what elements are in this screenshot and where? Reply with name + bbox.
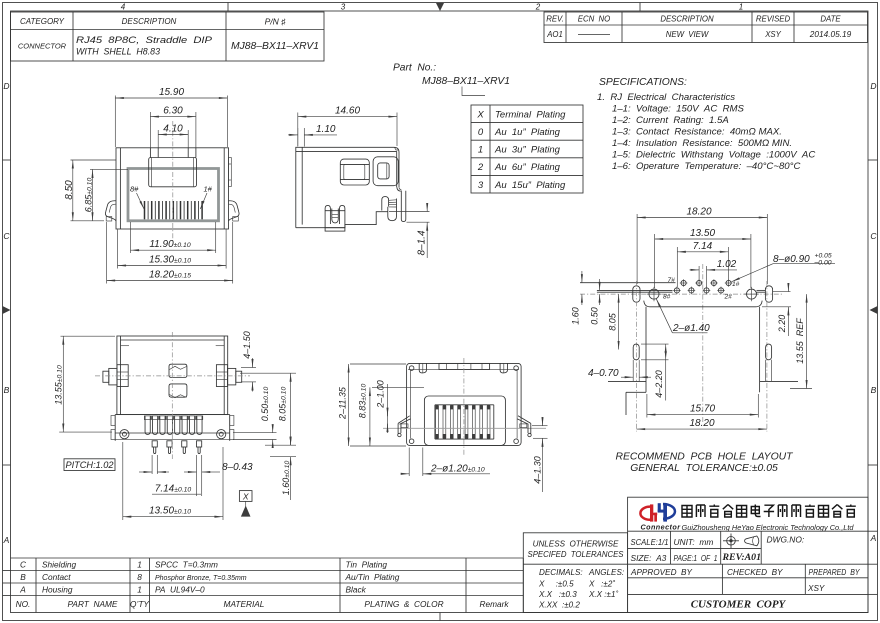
title block grid xyxy=(523,497,868,612)
svg-text:Phosphor Bronze, T=0.35mm: Phosphor Bronze, T=0.35mm xyxy=(155,575,247,582)
parts table grid xyxy=(11,558,524,613)
svg-text:DECIMALS:: DECIMALS: xyxy=(539,568,583,577)
top view: centerlines xyxy=(95,375,250,377)
centering arrow top xyxy=(436,3,444,11)
svg-text:MJ88–BX11–XRV1: MJ88–BX11–XRV1 xyxy=(231,40,319,52)
tolerance box text xyxy=(528,540,625,610)
svg-text:PLATING & COLOR: PLATING & COLOR xyxy=(364,599,443,609)
svg-text:1–6: Operature Temperature:: 1–6: Operature Temperature: –40°C~80°C xyxy=(612,161,800,172)
svg-text:8: 8 xyxy=(137,572,142,582)
svg-text:8.50: 8.50 xyxy=(64,180,75,200)
dim 8.50 xyxy=(71,160,117,221)
svg-text:CONNECTOR: CONNECTOR xyxy=(18,42,67,51)
svg-text:18.20±0.15: 18.20±0.15 xyxy=(149,269,191,280)
svg-text:C: C xyxy=(870,231,877,241)
pcb layout: big holes 2-d1.40 xyxy=(647,287,759,301)
svg-text:13.55 REF: 13.55 REF xyxy=(795,318,805,364)
svg-text:Au 6u” Plating: Au 6u” Plating xyxy=(494,162,561,173)
svg-text:Tin Plating: Tin Plating xyxy=(346,560,388,570)
svg-text:18.20: 18.20 xyxy=(686,207,711,218)
svg-text:Au 15u” Plating: Au 15u” Plating xyxy=(494,180,566,191)
svg-text:B: B xyxy=(871,385,877,395)
front view: right seam tab xyxy=(229,158,232,187)
dim 8-d0.90 xyxy=(773,263,835,265)
svg-text:1. RJ Electrical Characteri: 1. RJ Electrical Characteristics xyxy=(597,92,735,103)
dim 18.20 xyxy=(107,222,233,284)
svg-text:1#: 1# xyxy=(204,185,213,194)
svg-text:8–1.4: 8–1.4 xyxy=(417,230,428,255)
dim 2-d1.40 xyxy=(672,332,707,334)
top view: post circles xyxy=(120,430,129,439)
rear view: pcb line xyxy=(383,427,546,429)
svg-text:SPECIFED TOLERANCES: SPECIFED TOLERANCES xyxy=(528,550,625,559)
svg-text:8.05: 8.05 xyxy=(608,312,618,331)
top view: body xyxy=(117,336,228,415)
svg-text:–0.00: –0.00 xyxy=(814,260,832,267)
svg-text:4: 4 xyxy=(121,3,126,12)
svg-text:PREPARED BY: PREPARED BY xyxy=(809,568,860,577)
pcb layout: outline xyxy=(608,301,798,415)
top view: shield clip upper xyxy=(169,364,187,377)
svg-text:0: 0 xyxy=(478,127,484,138)
dim 1.02 pcb xyxy=(690,266,738,287)
zone ticks top xyxy=(228,3,640,12)
dim 4-2.20 xyxy=(641,344,669,400)
dim 4.10 xyxy=(158,130,188,148)
zone ticks left xyxy=(3,160,11,465)
svg-text:8–ø0.90: 8–ø0.90 xyxy=(773,254,810,265)
svg-text:XSY: XSY xyxy=(764,30,781,39)
svg-text:C: C xyxy=(20,560,27,570)
svg-text:GuiZhousheng HeYao Electronic: GuiZhousheng HeYao Electronic Technology… xyxy=(682,523,855,532)
svg-text:SCALE:1/1: SCALE:1/1 xyxy=(631,537,669,547)
svg-text:8–0.43: 8–0.43 xyxy=(222,462,253,473)
svg-text:7.14: 7.14 xyxy=(693,241,713,252)
svg-text:NO.: NO. xyxy=(16,599,31,609)
svg-text:8.83±0.10: 8.83±0.10 xyxy=(358,384,368,419)
top view: 8 contacts xyxy=(145,416,202,434)
pcb layout: holes centerline xyxy=(580,293,783,295)
cone symbol xyxy=(745,536,759,546)
top view: contact strip xyxy=(115,415,230,441)
svg-text:GENERAL TOLERANCE:±0.05: GENERAL TOLERANCE:±0.05 xyxy=(630,463,778,474)
svg-text:1: 1 xyxy=(739,3,743,12)
svg-text:3: 3 xyxy=(478,180,484,191)
side view: rear hook and lead xyxy=(397,187,401,191)
svg-text:B: B xyxy=(4,385,10,395)
svg-text:2–ø1.20±0.10: 2–ø1.20±0.10 xyxy=(430,464,485,475)
side view: body outline xyxy=(296,147,399,227)
svg-text:1–2: Current Rating: 1.5A: 1–2: Current Rating: 1.5A xyxy=(612,115,729,126)
dim 8.05 top view xyxy=(240,373,296,445)
front view: shell outline xyxy=(116,148,229,229)
rear view: inner window xyxy=(424,396,505,445)
svg-text:14.60: 14.60 xyxy=(335,106,360,117)
svg-text:PITCH:1.02: PITCH:1.02 xyxy=(66,460,114,470)
svg-text:X: X xyxy=(242,492,249,502)
front view: right ear xyxy=(229,201,240,221)
dim 2-1.00 xyxy=(387,384,389,433)
svg-text:CUSTOMER COPY: CUSTOMER COPY xyxy=(691,599,787,611)
top view: shield clip lower xyxy=(169,384,187,397)
svg-text:1–4: Insulation Resistance:: 1–4: Insulation Resistance: 500MΩ MIN. xyxy=(612,138,792,149)
svg-text:MATERIAL: MATERIAL xyxy=(224,599,265,609)
svg-text:DATE: DATE xyxy=(820,15,841,24)
svg-text:P/N ♯: P/N ♯ xyxy=(265,17,287,27)
front view: key slot walls xyxy=(150,148,196,158)
centering arrow bottom xyxy=(439,613,441,621)
svg-text:Au 3u” Plating: Au 3u” Plating xyxy=(494,145,561,156)
front view: centerline xyxy=(172,121,174,243)
dim 8-1.4 xyxy=(389,204,430,259)
top view: left latch ear xyxy=(103,365,128,387)
zone numbers top xyxy=(121,3,743,12)
svg-text:Remark: Remark xyxy=(479,599,509,609)
svg-text:B: B xyxy=(20,572,26,582)
pcb layout: upper slots xyxy=(633,286,640,302)
svg-text:0.50±0.10: 0.50±0.10 xyxy=(260,387,270,422)
svg-text:CHECKED BY: CHECKED BY xyxy=(727,568,783,577)
rear view: right ear xyxy=(517,416,531,437)
svg-text:7.14±0.10: 7.14±0.10 xyxy=(155,484,192,495)
dim 13.50 top view xyxy=(123,442,223,520)
dim 4-0.70 xyxy=(621,376,651,378)
svg-text:Contact: Contact xyxy=(42,572,71,582)
svg-text:4.10: 4.10 xyxy=(163,124,183,135)
company logo xyxy=(640,503,681,531)
rear view: 8 contacts xyxy=(436,406,490,438)
centering arrow right xyxy=(870,306,878,314)
rear view: top tabs xyxy=(408,363,519,438)
svg-text:1–3: Contact Resistance: 40: 1–3: Contact Resistance: 40mΩ MAX. xyxy=(612,127,782,138)
side view: foot pad xyxy=(325,228,345,231)
svg-text:Housing: Housing xyxy=(42,585,73,595)
svg-text:1: 1 xyxy=(137,585,142,595)
dim 13.50 pcb xyxy=(655,234,751,288)
dim 6.30 xyxy=(150,112,196,148)
front view: port opening thick xyxy=(128,169,219,221)
svg-text:DESCRIPTION: DESCRIPTION xyxy=(660,15,714,24)
rear view: corner holes xyxy=(409,366,518,444)
svg-text:13.50: 13.50 xyxy=(690,228,715,239)
dim 13.55 REF xyxy=(790,294,812,388)
svg-text:2#: 2# xyxy=(724,294,733,301)
svg-text:1–1: Voltage: 150V AC RMS: 1–1: Voltage: 150V AC RMS xyxy=(612,104,744,115)
side view: front foot clip xyxy=(325,205,345,227)
svg-text:D: D xyxy=(3,81,9,91)
margin tick lines right xyxy=(868,531,878,594)
dim 1.60 pcb xyxy=(581,271,583,305)
side view: contact spring clip xyxy=(382,197,389,211)
projection symbol xyxy=(723,534,739,549)
header table top-left xyxy=(11,12,325,61)
revision table top-right xyxy=(544,12,868,43)
side view: latch window xyxy=(340,159,369,185)
zone letters left xyxy=(3,81,11,545)
svg-text:13.50±0.10: 13.50±0.10 xyxy=(149,506,191,517)
svg-text:4–0.70: 4–0.70 xyxy=(588,368,619,379)
dim 15.90 xyxy=(115,96,227,148)
svg-text:8.05±0.10: 8.05±0.10 xyxy=(278,387,288,422)
svg-text:2–1.00: 2–1.00 xyxy=(376,380,386,409)
svg-text:Q’TY: Q’TY xyxy=(130,599,150,609)
svg-text:1.60±0.10: 1.60±0.10 xyxy=(281,461,291,496)
svg-text:ANGLES:: ANGLES: xyxy=(588,568,624,577)
svg-text:1.02: 1.02 xyxy=(717,259,737,270)
svg-text:1: 1 xyxy=(137,560,142,570)
svg-text:Au 1u” Plating: Au 1u” Plating xyxy=(494,127,561,138)
terminal plating table xyxy=(471,105,583,193)
dim 2-d1.20 xyxy=(401,448,490,477)
pcb layout: pin labels xyxy=(663,277,740,301)
svg-text:A: A xyxy=(870,533,877,543)
svg-text:11.90±0.10: 11.90±0.10 xyxy=(149,239,190,250)
svg-text:1.10: 1.10 xyxy=(316,124,336,135)
svg-text:2–11.35: 2–11.35 xyxy=(338,386,348,420)
centering arrow left xyxy=(3,306,11,314)
svg-text:APPROVED BY: APPROVED BY xyxy=(630,568,693,577)
svg-text:15.90: 15.90 xyxy=(159,87,184,98)
company name cn (glyph strokes) xyxy=(682,505,856,518)
svg-text:SPECIFICATIONS:: SPECIFICATIONS: xyxy=(599,77,687,88)
pcb layout: lower slots xyxy=(633,344,639,360)
zone letters right xyxy=(870,81,878,543)
dim 15.70 xyxy=(647,394,758,418)
dim 2-11.35 xyxy=(349,364,406,446)
dim 6.85 xyxy=(90,169,128,220)
svg-text:RECOMMEND PCB HOLE LAYOUT: RECOMMEND PCB HOLE LAYOUT xyxy=(615,451,793,462)
zone ticks right xyxy=(868,160,878,465)
svg-text:CATEGORY: CATEGORY xyxy=(20,17,65,26)
svg-text:D: D xyxy=(870,81,876,91)
dim 2.20 pcb xyxy=(762,285,791,337)
svg-text:4–2.20: 4–2.20 xyxy=(654,370,664,398)
svg-text:X.X :±1˚: X.X :±1˚ xyxy=(588,590,618,599)
dim 1.10 xyxy=(288,128,337,147)
svg-text:7#: 7# xyxy=(668,277,676,284)
svg-text:DESCRIPTION: DESCRIPTION xyxy=(122,17,177,26)
top view: strip side tabs xyxy=(111,416,234,440)
svg-text:RJ45 8P8C, Straddle DIP: RJ45 8P8C, Straddle DIP xyxy=(76,35,213,45)
svg-text:4–1.30: 4–1.30 xyxy=(533,456,543,484)
svg-text:DWG.NO:: DWG.NO: xyxy=(767,535,805,545)
specifications text xyxy=(597,77,815,172)
front view: contact comb xyxy=(145,201,203,219)
dim 0.50 pcb xyxy=(599,279,601,305)
svg-text:PART NAME: PART NAME xyxy=(68,599,118,609)
svg-text:Terminal Plating: Terminal Plating xyxy=(495,110,566,121)
scale row text xyxy=(631,535,805,564)
svg-text:0.50: 0.50 xyxy=(590,307,600,325)
svg-text:A: A xyxy=(3,535,10,545)
svg-text:Au/Tin Plating: Au/Tin Plating xyxy=(345,572,400,582)
front view: left ear xyxy=(105,201,116,221)
svg-text:PAGE:1 OF 1: PAGE:1 OF 1 xyxy=(674,553,718,563)
svg-text:3: 3 xyxy=(341,3,346,12)
svg-text:X: X xyxy=(476,110,484,121)
svg-text:1#: 1# xyxy=(732,281,740,288)
svg-text:AO1: AO1 xyxy=(546,30,563,39)
svg-text:4–1.50: 4–1.50 xyxy=(242,331,252,359)
front view: key tab block xyxy=(149,158,197,187)
svg-text:8#: 8# xyxy=(663,294,671,301)
svg-text:Part No.:: Part No.: xyxy=(393,63,436,74)
dim 1.60 top view xyxy=(270,438,296,501)
dim 14.60 xyxy=(298,113,397,147)
svg-text:Connector: Connector xyxy=(641,522,682,531)
svg-text:WITH SHELL H8.83: WITH SHELL H8.83 xyxy=(76,47,161,57)
svg-text:2014.05.19: 2014.05.19 xyxy=(809,29,852,39)
svg-text:6.30: 6.30 xyxy=(163,106,183,117)
svg-text:XSY: XSY xyxy=(807,584,825,593)
rear view: left ear xyxy=(398,416,411,437)
svg-text:UNLESS OTHERWISE: UNLESS OTHERWISE xyxy=(533,540,619,549)
svg-text:SPCC T=0.3mm: SPCC T=0.3mm xyxy=(155,560,218,570)
dim 0.50 top view xyxy=(233,425,277,447)
dim 11.90 xyxy=(131,222,216,253)
dim 4-1.50 xyxy=(241,358,256,392)
dim 15.30 xyxy=(118,230,227,269)
svg-text:1.60: 1.60 xyxy=(571,307,581,325)
svg-text:15.70: 15.70 xyxy=(690,404,715,415)
parts table text xyxy=(16,560,510,610)
svg-text:15.30±0.10: 15.30±0.10 xyxy=(149,254,191,265)
svg-text:2: 2 xyxy=(535,3,541,12)
svg-text:18.20: 18.20 xyxy=(689,418,714,429)
side view: right block xyxy=(373,157,398,186)
svg-text:NEW VIEW: NEW VIEW xyxy=(666,30,709,39)
part no leader elbow xyxy=(462,87,485,96)
svg-text:1: 1 xyxy=(478,145,483,156)
dim 8.05 pcb xyxy=(618,294,620,349)
dim 7.14 pcb xyxy=(677,247,728,287)
dim 18.20 pcb bottom xyxy=(637,428,767,430)
svg-text:X :±0.5: X :±0.5 xyxy=(538,580,574,589)
pcb layout: 8 small holes xyxy=(674,280,731,293)
svg-text:2.20: 2.20 xyxy=(777,315,787,334)
dim 8.83 xyxy=(370,387,424,446)
rear view: contact rails xyxy=(435,405,494,439)
svg-text:X.X :±0.3: X.X :±0.3 xyxy=(538,590,577,599)
svg-text:6.85±0.10: 6.85±0.10 xyxy=(84,178,94,213)
pcb layout: edge lines xyxy=(580,283,791,293)
svg-text:Black: Black xyxy=(346,585,367,595)
top view: right latch ear xyxy=(216,365,241,387)
svg-text:8#: 8# xyxy=(130,185,139,194)
rear view: centerline xyxy=(463,358,465,455)
svg-text:A: A xyxy=(19,585,26,595)
svg-text:13.55±0.10: 13.55±0.10 xyxy=(54,365,64,405)
rear view: body xyxy=(407,363,521,445)
svg-text:2: 2 xyxy=(477,162,484,173)
svg-text:PA UL94V–0: PA UL94V–0 xyxy=(155,585,205,595)
svg-text:REV:A01: REV:A01 xyxy=(722,552,761,563)
dim 13.55 top view xyxy=(59,336,115,432)
svg-text:2–ø1.40: 2–ø1.40 xyxy=(672,323,710,334)
svg-text:C: C xyxy=(3,231,10,241)
margin tick lines bottom-left xyxy=(3,571,11,596)
svg-text:UNIT: mm: UNIT: mm xyxy=(674,537,714,547)
pitch label xyxy=(64,459,115,471)
svg-text:X :±2˚: X :±2˚ xyxy=(588,580,615,589)
svg-text:Shielding: Shielding xyxy=(42,560,77,570)
datum X flag xyxy=(239,491,252,502)
dim 18.20 pcb top xyxy=(637,214,767,284)
svg-text:X.XX :±0.2: X.XX :±0.2 xyxy=(538,601,580,610)
svg-text:REVISED: REVISED xyxy=(756,15,791,24)
dim 4-1.30 xyxy=(532,417,548,492)
svg-text:ECN NO: ECN NO xyxy=(578,15,611,24)
svg-text:REV.: REV. xyxy=(546,15,564,24)
svg-text:MJ88–BX11–XRV1: MJ88–BX11–XRV1 xyxy=(422,76,510,87)
dim 8-0.43 / 7.14 xyxy=(139,455,220,496)
svg-text:+0.05: +0.05 xyxy=(815,253,832,260)
approval row xyxy=(630,568,860,593)
top view: 4 legs xyxy=(152,441,202,454)
svg-text:SIZE: A3: SIZE: A3 xyxy=(631,553,667,563)
svg-text:1–5: Dielectric Withstang V: 1–5: Dielectric Withstang Voltage :1000V… xyxy=(612,150,815,161)
side view: top corner notch xyxy=(395,147,400,150)
